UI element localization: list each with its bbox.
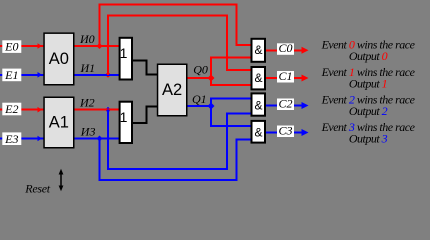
- wire Q0 net: [187, 77, 211, 79]
- wire И1 net: [74, 74, 119, 76]
- wire block B2 to A2: [133, 107, 158, 123]
- junction И2-feedback (blue dot under red wire): [105, 107, 111, 113]
- svg-text:Q0: Q0: [193, 63, 208, 77]
- wire И3 feedback to gate D4: [100, 139, 251, 181]
- svg-text:И1: И1: [80, 61, 96, 75]
- wire И0 feedback to gate D1: [100, 5, 251, 47]
- output label C3: [277, 123, 294, 137]
- wire И2 feedback to gate D3: [108, 110, 251, 169]
- svg-text:A1: A1: [49, 113, 69, 131]
- wire И3 net: [74, 138, 119, 140]
- wire И2 net: [74, 109, 119, 111]
- gate D2 (AND &): [252, 67, 266, 89]
- arrowhead C3: [302, 129, 309, 136]
- input label E1: [2, 68, 21, 82]
- svg-text:1: 1: [120, 45, 128, 61]
- arrowhead E1: [38, 72, 43, 78]
- svg-text:C0: C0: [278, 41, 292, 55]
- svg-text:Output 2: Output 2: [349, 104, 388, 118]
- svg-text:1: 1: [120, 109, 128, 125]
- junction И1-feedback (red dot under blue wire): [105, 72, 111, 78]
- block A0 (arbiter element): [44, 33, 74, 85]
- arrowhead C1: [302, 75, 309, 82]
- block A1 (arbiter element): [44, 97, 74, 148]
- svg-text:&: &: [254, 98, 262, 112]
- arrowhead C0: [302, 47, 309, 54]
- arrowhead E2: [38, 107, 43, 113]
- svg-text:E0: E0: [4, 40, 18, 54]
- block B1 (OR element 1): [120, 38, 132, 80]
- svg-text:C2: C2: [278, 96, 292, 110]
- output label C2: [277, 96, 294, 110]
- svg-text:&: &: [254, 125, 262, 139]
- gate D4 (AND &): [252, 121, 266, 143]
- wire C0 output: [266, 49, 303, 51]
- svg-text:E3: E3: [4, 132, 18, 146]
- block A2 (arbiter element): [158, 64, 187, 116]
- wire Q1 branch to gate D3: [211, 98, 251, 106]
- wire И1 feedback to gate D2: [108, 15, 251, 74]
- svg-text:C3: C3: [278, 123, 292, 137]
- input label E2: [2, 102, 21, 116]
- wire C2 output: [266, 105, 303, 107]
- output label C1: [277, 69, 294, 83]
- svg-text:Output 0: Output 0: [349, 49, 388, 63]
- wire E2 input: [0, 109, 44, 111]
- wire C1 output: [266, 77, 303, 79]
- arrowhead C2: [302, 102, 309, 109]
- wire Q1 net: [187, 105, 211, 107]
- svg-text:C1: C1: [278, 69, 292, 83]
- gate D1 (AND &): [252, 39, 266, 62]
- output label C0: [277, 41, 294, 55]
- wire E1 input: [0, 74, 44, 76]
- wire C3 output: [266, 132, 303, 134]
- svg-text:&: &: [254, 71, 262, 85]
- wire Q0 branch to gate D1: [211, 57, 251, 78]
- svg-text:E1: E1: [4, 68, 18, 82]
- Reset double arrow: [59, 169, 64, 191]
- wire E3 input: [0, 138, 44, 140]
- gate D3 (AND &): [252, 93, 266, 115]
- svg-text:E2: E2: [4, 102, 18, 116]
- junction Q1: [208, 103, 215, 110]
- junction И0: [97, 43, 103, 49]
- svg-text:A2: A2: [162, 81, 182, 99]
- input label E3: [2, 132, 21, 146]
- wire И0 net: [74, 45, 119, 47]
- wire Q1 branch to gate D4: [211, 106, 251, 126]
- wire Q0 branch to gate D2: [211, 78, 251, 85]
- svg-text:Q1: Q1: [192, 92, 207, 106]
- block B2 (OR element 1): [120, 102, 132, 143]
- svg-text:И3: И3: [80, 124, 96, 138]
- wire E0 input: [0, 45, 44, 47]
- svg-text:Output 3: Output 3: [349, 131, 388, 145]
- input label E0: [2, 40, 21, 54]
- arrowhead E3: [38, 136, 43, 142]
- svg-text:И2: И2: [79, 96, 95, 110]
- svg-text:Reset: Reset: [24, 182, 50, 196]
- junction И3: [97, 136, 103, 142]
- svg-text:Output 1: Output 1: [349, 76, 387, 90]
- junction Q0: [208, 75, 215, 82]
- arrowhead E0: [38, 43, 43, 49]
- wire block B1 to A2: [133, 60, 158, 74]
- svg-text:И0: И0: [79, 32, 95, 46]
- svg-text:A0: A0: [49, 50, 69, 68]
- svg-text:&: &: [254, 43, 262, 57]
